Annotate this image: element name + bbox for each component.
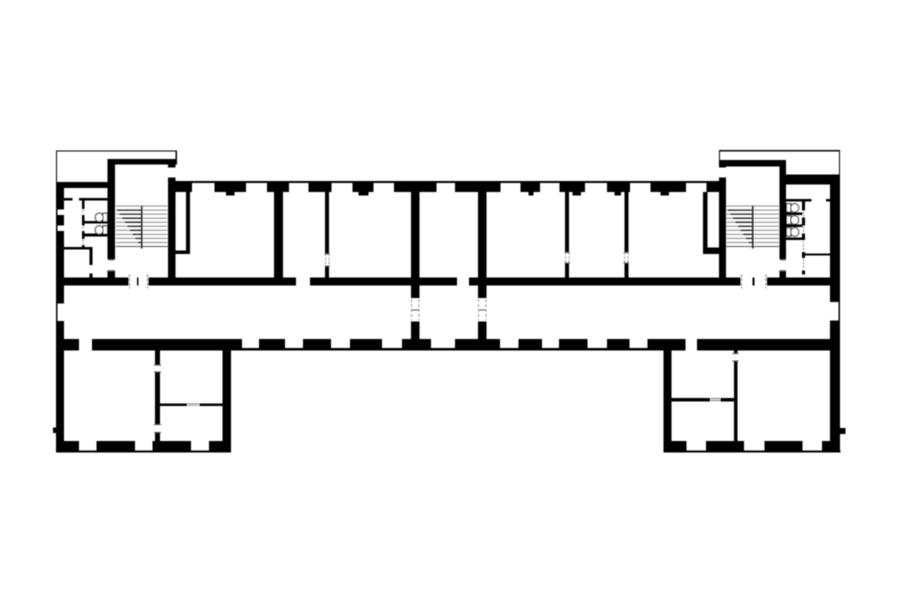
west wing north wall: [56, 339, 79, 351]
pilaster stub: [661, 192, 670, 195]
north wall pier: [214, 183, 246, 192]
east outer wall upper: [830, 175, 840, 302]
south wall pier: [259, 339, 285, 348]
north facade sill line: [175, 181, 719, 183]
west toilet stall divider 2: [84, 234, 107, 237]
partition P1 (thin): [186, 192, 190, 254]
south wall pier: [559, 339, 588, 348]
east stairwell west wall: [719, 178, 726, 286]
west stairwell west wall lower: [108, 270, 116, 285]
west terrace outline: [56, 151, 176, 182]
west wall small pier bump: [53, 428, 56, 433]
west stair double-door mullion: [137, 277, 138, 285]
P1 foot stub: [174, 251, 190, 255]
north wall pier: [559, 183, 585, 192]
north wall pier: [353, 183, 374, 192]
west wing south wall pier: [153, 441, 192, 451]
south wall pier: [518, 339, 542, 348]
east outer wall lower: [830, 321, 839, 452]
west outer wall: [56, 182, 64, 210]
corridor north wall: [148, 277, 296, 285]
south wall pier: [607, 339, 629, 348]
cross wall A lower: [411, 321, 420, 339]
partition P3 upper: [325, 192, 329, 254]
east toilet 2: [787, 216, 799, 225]
west wing inner wall N-S: [155, 348, 160, 365]
north wall pier: [650, 183, 686, 192]
east toilet 3: [787, 228, 799, 237]
west stairwell east wall: [168, 178, 175, 286]
north wall pier: [455, 183, 500, 192]
east stairwell east wall upper: [780, 166, 787, 259]
west toilets stall wall: [82, 201, 85, 210]
pilaster stub: [615, 192, 621, 195]
east annexe north wall: [786, 175, 830, 185]
pilaster stub: [226, 192, 235, 195]
east stairwell stairs: [726, 206, 779, 247]
pilaster stub: [528, 192, 533, 195]
partition P8: [703, 192, 708, 248]
corridor south sill line: [231, 348, 664, 350]
east stairwell east wall lower: [780, 270, 787, 285]
south wall pier: [402, 339, 431, 348]
west stairwell north wall: [108, 159, 177, 165]
west stairwell stairs: [116, 206, 168, 247]
pilaster stub: [573, 192, 582, 195]
east wing inner wall N-S: [734, 348, 738, 354]
south wall pier: [231, 339, 242, 348]
east wall pier bump: [840, 428, 846, 434]
north wall pier (east end): [707, 183, 719, 192]
west wing south sill line: [56, 451, 231, 453]
east toilets south wall: [786, 238, 803, 241]
corridor north wall: [767, 277, 830, 285]
west annexe north wall: [56, 182, 108, 188]
P8 foot stub: [703, 248, 720, 254]
east terrace outline: [719, 151, 839, 175]
cross wall B upper: [478, 192, 486, 298]
west wing inner wall E-W: [160, 404, 187, 407]
north wall pier: [267, 183, 289, 192]
partition P2 (thick): [274, 192, 283, 277]
east wing south wall pier: [764, 441, 802, 451]
east wing west wall: [664, 348, 672, 452]
partition P7 upper: [624, 192, 628, 253]
east toilet stall divider 1: [786, 212, 803, 215]
north wall pier: [521, 183, 541, 192]
east wing south sill line: [664, 451, 841, 453]
west annexe store room wall: [63, 247, 93, 250]
corridor double-door leaves: [478, 309, 487, 311]
pilaster stub: [359, 192, 369, 195]
east toilet 1: [787, 204, 799, 213]
partition P7 lower: [624, 263, 628, 277]
cross wall A upper: [411, 192, 420, 298]
corridor north wall: [310, 277, 457, 285]
south wall pier (east): [648, 339, 664, 348]
west toilet 1: [95, 213, 107, 222]
partition P3 lower: [325, 266, 329, 277]
corridor north wall: [56, 277, 128, 285]
east toilets stall wall: [802, 202, 805, 211]
east annexe inner wall: [802, 253, 830, 255]
partition P6 lower: [565, 263, 569, 277]
north wall pier: [394, 183, 437, 192]
corridor north wall: [469, 277, 741, 285]
south wall pier: [455, 339, 500, 348]
north wall pier: [175, 183, 191, 192]
east toilets north wall w/ door: [786, 199, 812, 202]
west stairwell west wall upper: [108, 165, 116, 260]
east wing south wall pier: [664, 441, 687, 451]
south wall pier: [350, 339, 382, 348]
west toilet stall divider 1: [84, 221, 107, 224]
west wing east wall: [223, 348, 232, 452]
west wing south wall pier: [209, 441, 231, 451]
corridor double-door leaves: [411, 309, 420, 311]
east stairwell west wall top: [719, 166, 726, 167]
cross wall B lower: [478, 321, 486, 339]
west annexe store room east wall: [90, 250, 93, 265]
west wing south wall pier: [56, 441, 79, 451]
east toilet stall divider 2: [786, 224, 803, 227]
east stairwell north wall: [719, 160, 786, 166]
east wing north wall: [664, 339, 686, 351]
partition P6 upper: [565, 192, 569, 253]
north wall pier: [309, 183, 332, 192]
east wing south wall pier: [706, 441, 744, 451]
south wall pier: [303, 339, 331, 348]
west wing south wall pier: [96, 441, 135, 451]
north wall pier: [607, 183, 630, 192]
west stairwell east wall top: [168, 165, 175, 168]
east wing inner wall E-W: [672, 398, 711, 401]
east wing south wall pier: [822, 441, 840, 451]
east stair double-door mullion: [753, 277, 755, 285]
west toilets north wall w/ door: [63, 198, 73, 201]
west toilet 2: [95, 226, 107, 235]
